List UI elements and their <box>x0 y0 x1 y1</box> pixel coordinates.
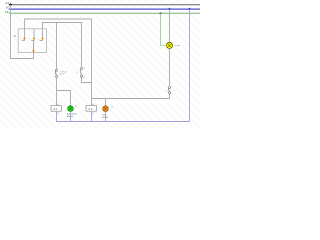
contact tick 1 <box>22 40 25 42</box>
svg-text:3: 3 <box>38 39 39 41</box>
terminal stub 1 <box>24 29 26 38</box>
wire W2: S0 t3 to K1 contact column <box>43 23 82 68</box>
contact K1 <box>76 67 85 79</box>
lamp E1 <box>166 42 181 48</box>
wire K1 contact to K2 column <box>82 77 92 82</box>
wire H2 to neutral <box>105 112 107 122</box>
selector arm <box>33 41 35 51</box>
relay coil K2 <box>86 103 96 115</box>
svg-text:3: 3 <box>172 86 173 88</box>
svg-text:lampe: lampe <box>175 45 181 47</box>
terminal t3 <box>41 37 44 40</box>
svg-text:13: 13 <box>83 67 85 69</box>
svg-text:1: 1 <box>20 39 21 41</box>
wire N right drop <box>189 9 191 121</box>
svg-text:4: 4 <box>172 94 173 96</box>
node N junction right <box>188 8 191 11</box>
terminal stub 2 <box>33 29 35 38</box>
terminal stub 3 <box>42 29 44 38</box>
relay coil K1 <box>51 103 61 115</box>
wire branch to H1 lamp <box>57 91 71 106</box>
terminal t2 <box>33 37 36 40</box>
rail L1 <box>6 1 200 5</box>
svg-text:K 2: K 2 <box>89 107 93 111</box>
wire lamp to S1 contact <box>169 49 171 87</box>
wire H1 to neutral <box>70 112 72 122</box>
lamp H2 <box>102 106 113 119</box>
wire branch to sonde contact <box>56 23 58 70</box>
neutral bottom rail <box>57 112 190 122</box>
svg-text:S1: S1 <box>166 90 168 92</box>
svg-text:H2: H2 <box>111 107 113 109</box>
svg-text:K1: K1 <box>76 72 78 74</box>
svg-text:N: N <box>6 6 8 10</box>
wire W1: S0 t1 to K2 column <box>25 19 92 106</box>
wire L1 drop to S0 bottom terminal <box>11 5 34 59</box>
svg-text:PE: PE <box>5 10 9 14</box>
rail N <box>6 6 200 10</box>
wire sonde to K1 coil <box>56 77 58 106</box>
wire K2 to neutral <box>91 112 93 122</box>
wire S1 to K2/H2 node <box>92 94 170 99</box>
node L1 junction <box>9 3 12 6</box>
contact R1 sonde <box>55 69 68 77</box>
svg-text:14: 14 <box>83 77 85 79</box>
wire H2 lamp feed <box>105 99 107 106</box>
svg-text:Sonde: Sonde <box>60 74 65 76</box>
contact S1 <box>166 86 173 95</box>
node PE junction <box>159 12 162 15</box>
svg-text:K 1: K 1 <box>54 107 58 111</box>
svg-text:2: 2 <box>29 39 30 41</box>
contact tick 3 <box>40 40 43 42</box>
wire PE to lamp <box>161 13 167 45</box>
terminal bottom <box>32 50 35 53</box>
wire N drop to lamp <box>169 9 171 42</box>
background grid <box>0 0 200 129</box>
terminal t1 <box>23 37 26 40</box>
node N junction at lamp column <box>168 8 171 11</box>
svg-text:L1: L1 <box>6 1 10 5</box>
svg-text:Marche: Marche <box>67 116 73 118</box>
svg-text:H1: H1 <box>75 106 77 108</box>
rail PE <box>5 10 200 14</box>
switch S0 box <box>13 29 46 53</box>
lamp H1 <box>67 106 77 118</box>
contact tick 2 <box>31 40 34 42</box>
